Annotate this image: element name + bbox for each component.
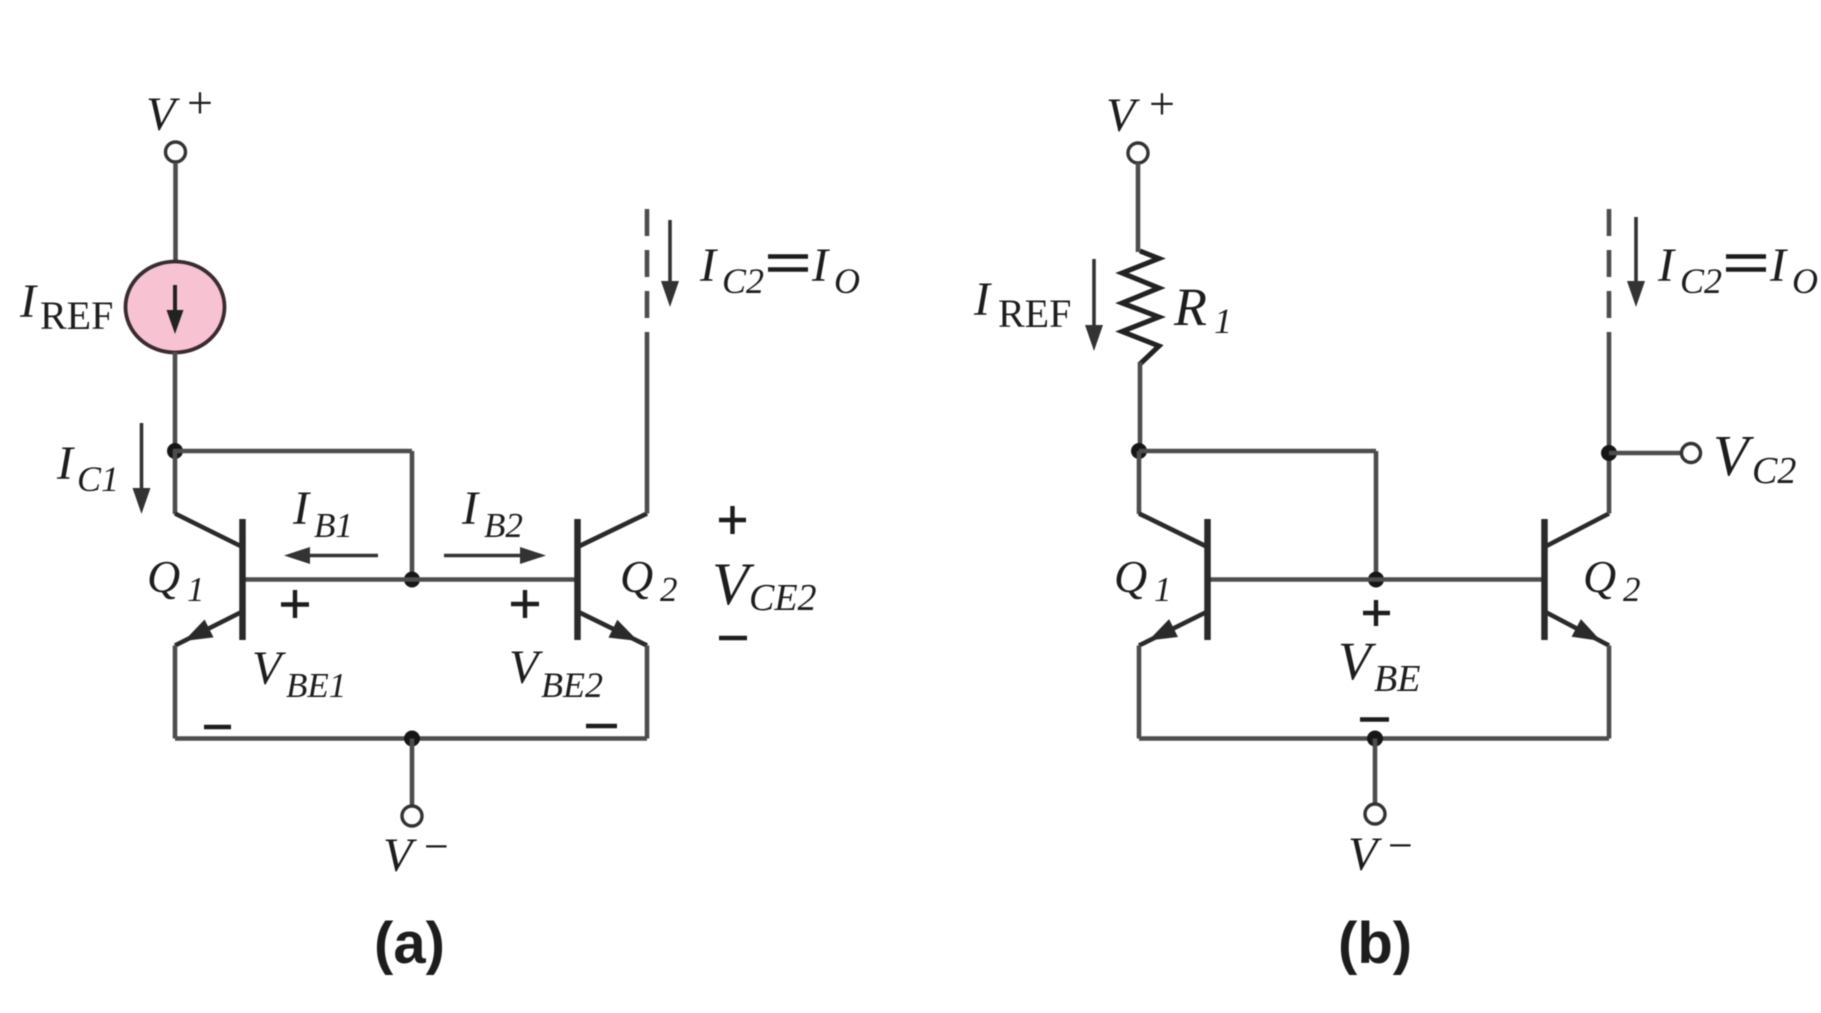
arrow IC1 (140, 423, 144, 496)
VC2 terminal (1682, 444, 1701, 463)
wire base Q1-Q2 (a) (243, 577, 578, 582)
svg-text:I: I (56, 437, 75, 490)
svg-text:REF: REF (40, 293, 113, 338)
svg-text:I: I (292, 482, 311, 535)
svg-text:V: V (1713, 423, 1755, 488)
transistor Q1 (b) base bar (1204, 519, 1211, 640)
svg-text:O: O (834, 261, 860, 301)
wire V+ to resistor (b) (1136, 163, 1141, 252)
wire collector dashed (b) (1607, 209, 1612, 341)
svg-text:I: I (461, 482, 480, 535)
svg-text:CE2: CE2 (749, 577, 817, 619)
svg-text:(a): (a) (374, 911, 445, 976)
svg-text:Q: Q (147, 551, 180, 602)
svg-text:C1: C1 (77, 459, 119, 499)
transistor Q1 (b) emitter (1139, 612, 1208, 646)
svg-text:+: + (187, 77, 213, 128)
transistor Q1 (a) base bar (239, 519, 246, 640)
wire node to mirror top (b) (1139, 449, 1376, 454)
wire to V- terminal (b) (1373, 739, 1378, 805)
svg-text:B2: B2 (484, 506, 523, 545)
minus VBE2 (586, 724, 617, 728)
svg-text:O: O (1792, 261, 1818, 301)
svg-text:1: 1 (1154, 570, 1172, 609)
plus VCE2 (719, 518, 746, 522)
current source IREF (a) (126, 262, 225, 353)
wire resistor to node (b) (1138, 362, 1143, 451)
plus VBE (b) (1363, 611, 1390, 615)
svg-text:2: 2 (1623, 570, 1641, 609)
svg-text:BE2: BE2 (541, 665, 603, 705)
node emitter rail (b) (1367, 731, 1383, 747)
V+ terminal (a) (166, 142, 186, 162)
svg-text:Q: Q (620, 551, 653, 602)
transistor Q2 (b) collector (1545, 514, 1610, 548)
V+ terminal (b) (1128, 143, 1148, 163)
resistor R1 (1122, 251, 1159, 364)
minus VBE1 (204, 725, 231, 729)
svg-text:V: V (1348, 828, 1382, 881)
wire emitter rail (a) (175, 736, 647, 741)
V- terminal (b) (1365, 804, 1385, 824)
minus VCE2 (719, 636, 747, 640)
svg-text:I: I (973, 273, 992, 326)
svg-text:Q: Q (1583, 551, 1616, 602)
svg-text:(b): (b) (1338, 911, 1412, 976)
arrow IB2 (444, 554, 524, 558)
transistor Q2 (b) base bar (1541, 519, 1548, 640)
svg-text:I: I (19, 275, 38, 328)
arrow IC2 (a) (668, 220, 672, 289)
wire emitter rail (b) (1139, 736, 1609, 741)
wire base Q1-Q2 (b) (1207, 577, 1545, 582)
node collector Q2 output (b) (1601, 445, 1617, 461)
transistor Q1 (b) collector (1137, 451, 1142, 514)
wire collector dashed (a) (645, 209, 650, 341)
svg-text:BE: BE (1374, 658, 1420, 700)
svg-text:V: V (1338, 631, 1377, 691)
arrow IC2 (b) (1634, 217, 1638, 289)
svg-text:BE1: BE1 (286, 666, 346, 705)
transistor Q1 (a) collector (173, 451, 178, 514)
wire V+ to current source (a) (173, 163, 178, 263)
wire to VC2 terminal (1609, 451, 1682, 456)
svg-text:C2: C2 (722, 261, 764, 301)
svg-text:V: V (252, 642, 286, 695)
transistor Q2 (a) emitter (578, 612, 648, 646)
svg-text:1: 1 (1214, 301, 1232, 341)
wire to V- terminal (a) (410, 739, 415, 807)
svg-text:V: V (146, 88, 180, 141)
arrow IB1 (306, 554, 378, 558)
transistor Q1 (a) emitter (175, 612, 243, 646)
svg-text:I: I (1769, 239, 1788, 292)
node collector Q1 (b) (1131, 443, 1147, 459)
svg-text:I: I (811, 239, 830, 292)
node base junction (b) (1368, 572, 1384, 588)
wire mirror down (a) (410, 451, 415, 580)
wire node to mirror top (a) (173, 449, 412, 454)
wire current source to node (a) (173, 352, 178, 451)
transistor Q2 (b) emitter (1545, 612, 1610, 646)
svg-text:−: − (1388, 821, 1413, 870)
transistor Q2 (a) base bar (574, 519, 581, 640)
svg-text:+: + (1149, 78, 1175, 129)
svg-text:−: − (424, 822, 449, 871)
svg-text:REF: REF (998, 291, 1071, 336)
arrow IREF (b) (1092, 259, 1096, 333)
svg-text:V: V (1106, 89, 1140, 142)
svg-text:V: V (383, 829, 417, 882)
plus VBE1 (281, 602, 309, 606)
node collector Q1 (a) (167, 443, 183, 459)
minus VBE (b) (1360, 717, 1389, 721)
V- terminal (a) (402, 806, 422, 826)
svg-text:R: R (1173, 277, 1207, 337)
svg-text:I: I (699, 239, 718, 292)
svg-text:V: V (509, 641, 543, 694)
svg-text:C2: C2 (1752, 450, 1796, 492)
node emitter rail (a) (404, 731, 420, 747)
svg-text:B1: B1 (314, 506, 353, 545)
svg-text:C2: C2 (1680, 261, 1722, 301)
svg-text:2: 2 (660, 570, 678, 609)
svg-text:1: 1 (187, 570, 205, 609)
svg-text:I: I (1657, 239, 1676, 292)
svg-text:Q: Q (1114, 551, 1147, 602)
plus VBE2 (511, 602, 539, 606)
wire mirror down (b) (1374, 451, 1379, 580)
transistor Q2 (a) collector (578, 514, 648, 548)
node base junction (a) (404, 572, 420, 588)
